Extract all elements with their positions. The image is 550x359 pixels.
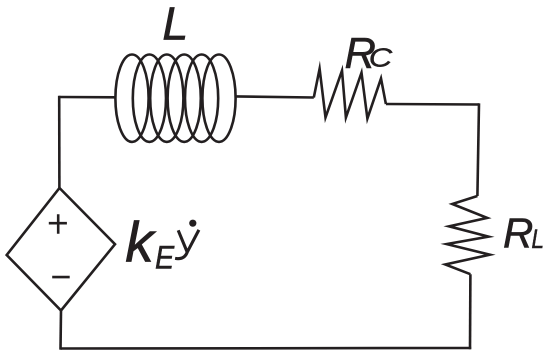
inductor L coil loop 4	[168, 54, 201, 141]
label RC subscript C	[369, 44, 393, 73]
wire top-left horizontal	[59, 96, 116, 99]
wire right vertical upper	[477, 103, 479, 196]
wire bottom horizontal	[61, 347, 472, 350]
resistor RC zigzag	[314, 69, 386, 119]
wire left vertical bottom (source bottom to corner)	[59, 311, 62, 350]
label kE subscript E	[155, 240, 175, 276]
inductor L coil loop 2	[133, 54, 166, 141]
inductor L coil loop 6	[202, 54, 235, 141]
svg-text:L: L	[531, 224, 544, 254]
label RL subscript L	[531, 224, 544, 254]
inductor L coil loop 3	[150, 54, 183, 141]
svg-text:E: E	[155, 240, 175, 276]
wire left vertical (corner to source top)	[58, 96, 61, 188]
svg-text:C: C	[369, 44, 393, 73]
plus sign	[49, 214, 67, 234]
inductor L coil loop 5	[185, 54, 218, 141]
wire inductor to resistor RC	[236, 96, 314, 97]
svg-text:R: R	[503, 210, 533, 257]
resistor RL zigzag	[445, 196, 490, 274]
svg-text:k: k	[125, 211, 156, 275]
inductor L coil loop 1	[115, 54, 148, 141]
ydot glyph strokes	[175, 230, 199, 259]
svg-text:L: L	[162, 0, 188, 50]
minus sign	[52, 276, 69, 279]
wire right vertical lower	[469, 274, 472, 349]
dependent source U1 diamond	[7, 188, 115, 311]
ydot dot	[189, 220, 196, 227]
wire RC to top-right corner	[386, 103, 479, 106]
